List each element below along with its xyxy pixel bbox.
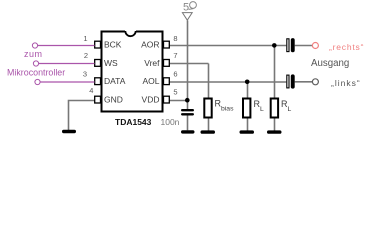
svg-text:Mikrocontroller: Mikrocontroller bbox=[7, 67, 65, 77]
svg-text:4: 4 bbox=[89, 86, 93, 95]
svg-text:zum: zum bbox=[24, 49, 43, 59]
svg-text:8: 8 bbox=[173, 34, 177, 43]
svg-text:WS: WS bbox=[104, 58, 118, 68]
svg-text:6: 6 bbox=[173, 69, 177, 78]
svg-text:BCK: BCK bbox=[104, 40, 122, 50]
svg-text:TDA1543: TDA1543 bbox=[115, 117, 152, 127]
svg-text:„rechts“: „rechts“ bbox=[329, 42, 364, 52]
svg-text:1: 1 bbox=[83, 34, 87, 43]
svg-text:„links“: „links“ bbox=[331, 78, 361, 88]
svg-text:VDD: VDD bbox=[142, 95, 160, 105]
svg-text:bias: bias bbox=[221, 105, 234, 112]
svg-text:AOL: AOL bbox=[142, 76, 159, 86]
svg-text:AOR: AOR bbox=[141, 40, 159, 50]
svg-text:7: 7 bbox=[173, 51, 177, 60]
svg-text:5: 5 bbox=[183, 2, 189, 14]
svg-text:100n: 100n bbox=[161, 117, 180, 127]
svg-text:5: 5 bbox=[173, 88, 177, 97]
svg-text:3: 3 bbox=[83, 69, 87, 78]
svg-text:Vref: Vref bbox=[144, 58, 160, 68]
svg-text:Ausgang: Ausgang bbox=[311, 58, 349, 69]
svg-text:L: L bbox=[260, 106, 264, 113]
svg-text:DATA: DATA bbox=[104, 76, 126, 86]
svg-text:L: L bbox=[288, 106, 292, 113]
svg-text:2: 2 bbox=[84, 51, 88, 60]
svg-text:GND: GND bbox=[104, 95, 123, 105]
